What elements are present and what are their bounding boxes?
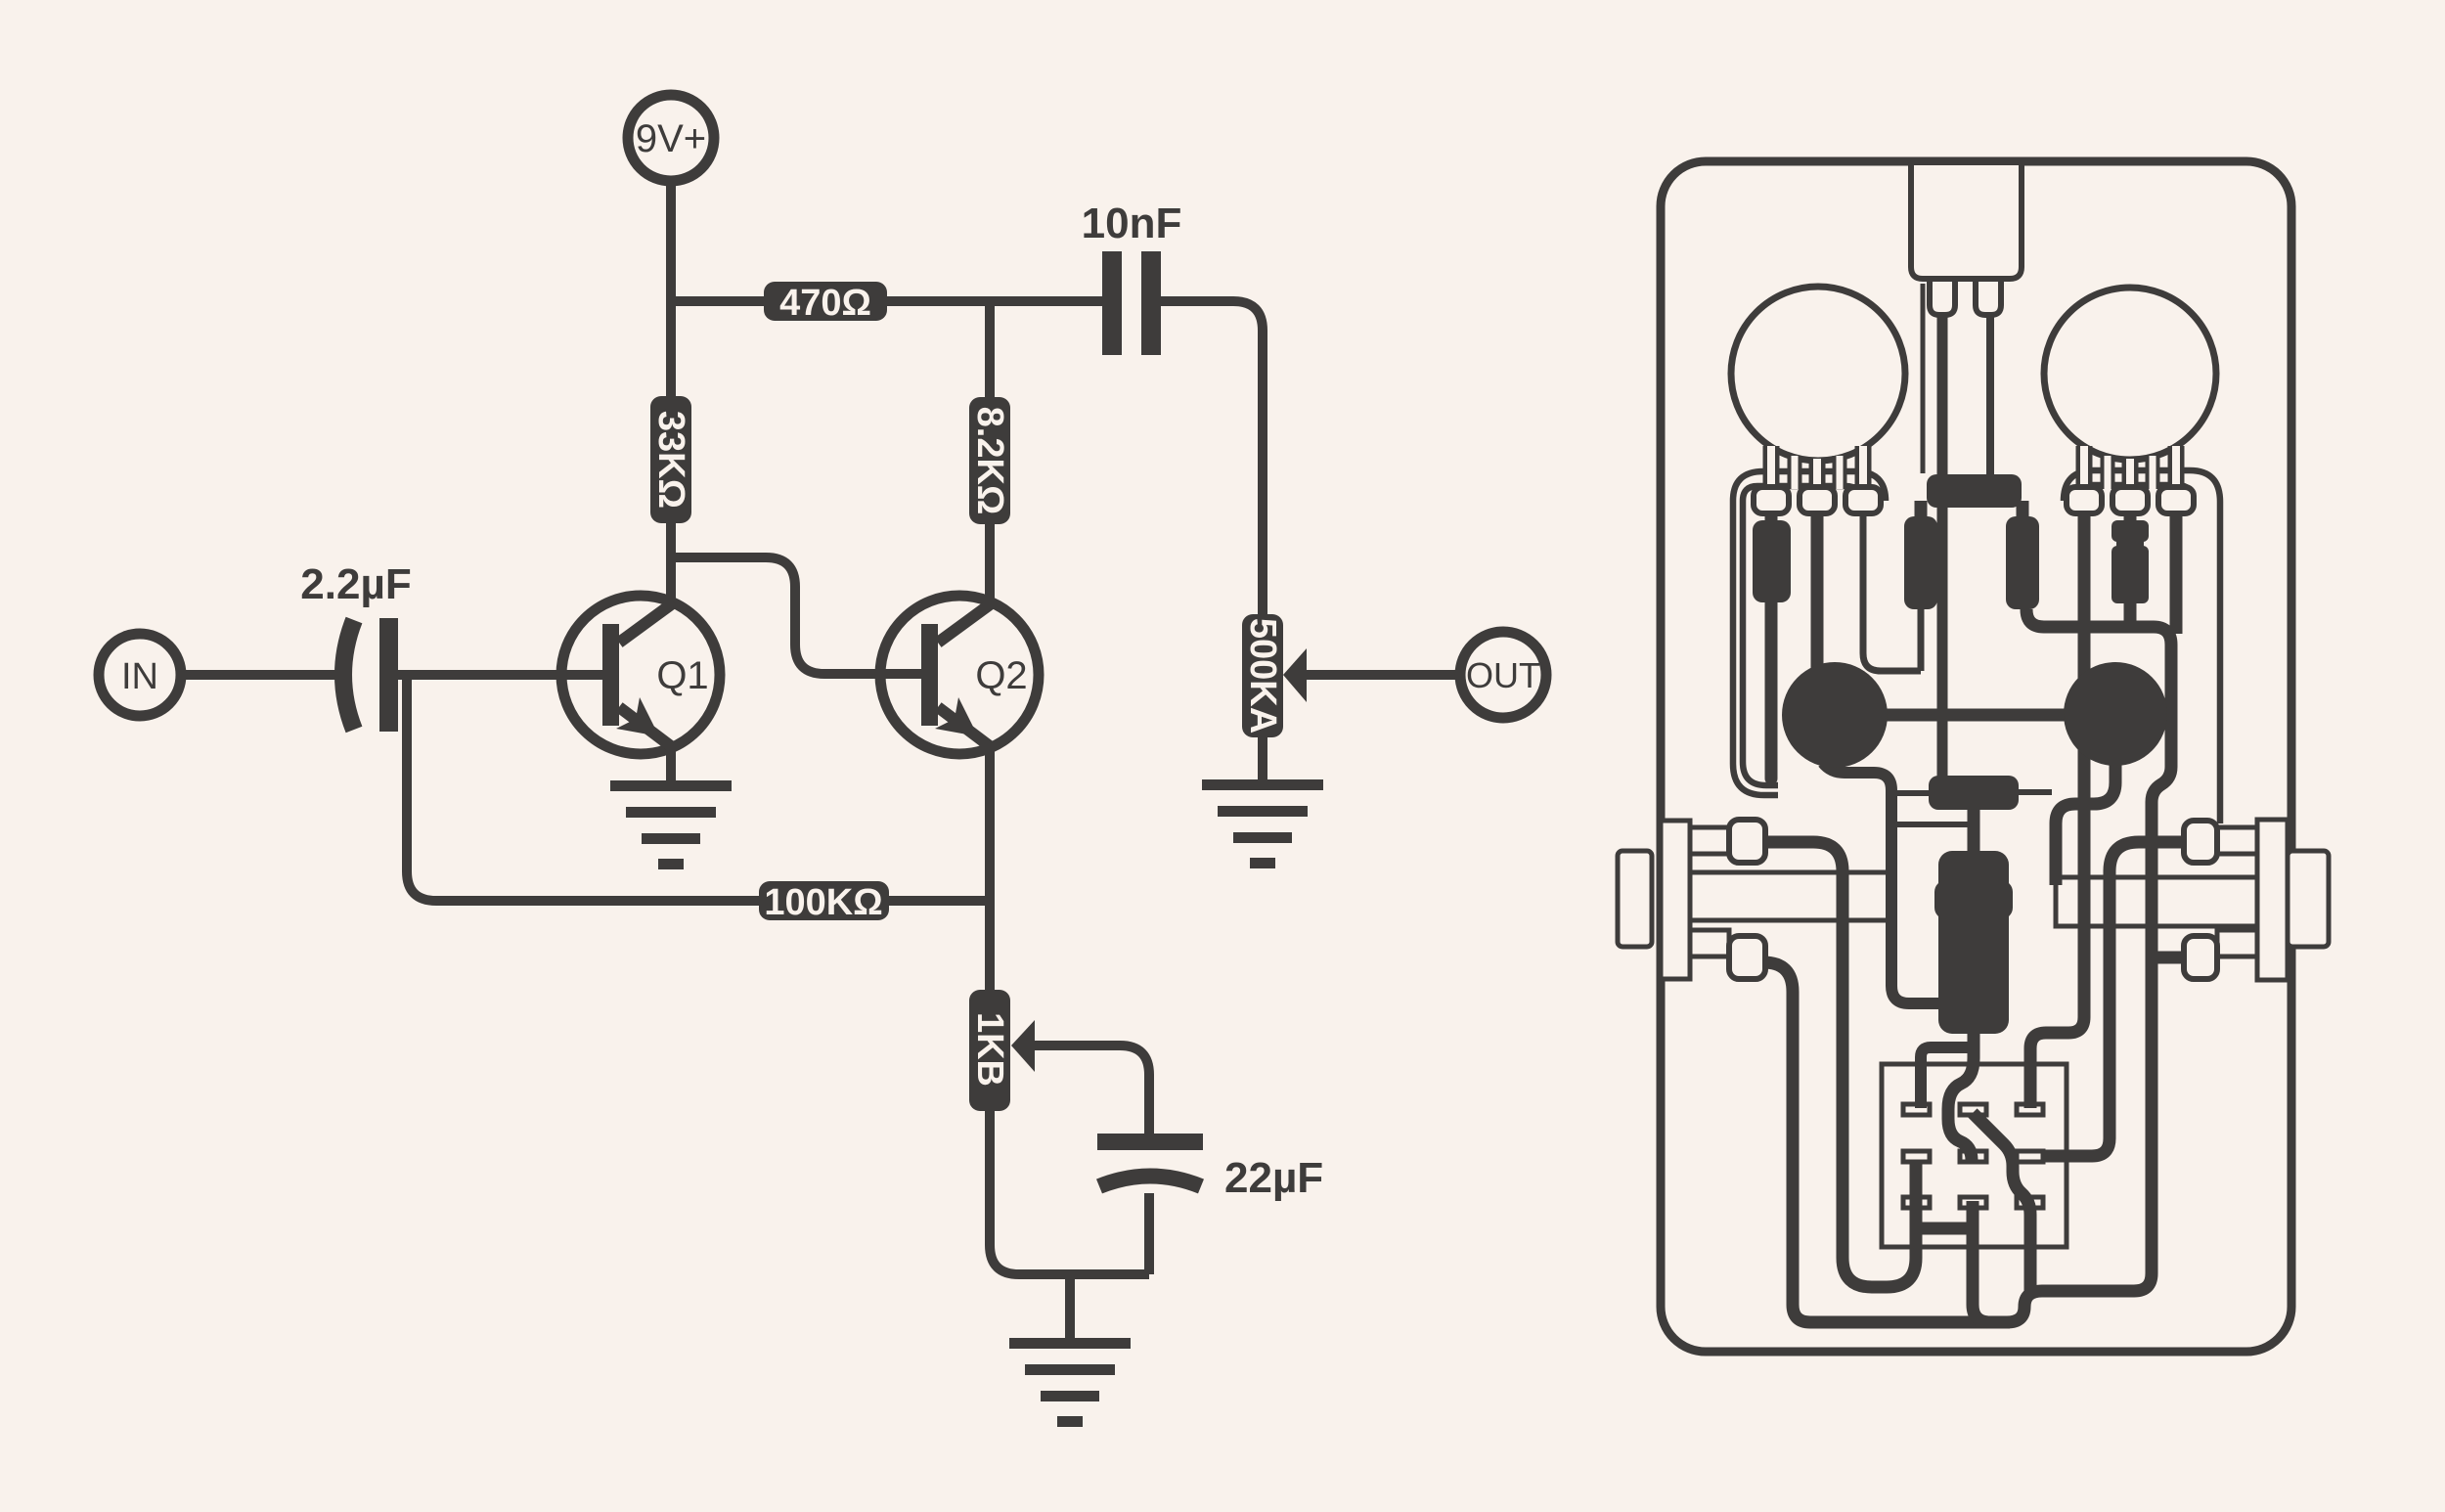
terminal IN (99, 634, 181, 716)
resistor mid horizontal layout (1929, 776, 2019, 810)
wire jack tip left to pad ML (1765, 842, 1916, 1287)
wire DC jack thin lead (1921, 284, 1926, 473)
capacitor 2.2uF polarized (300, 560, 411, 732)
resistor 33K (650, 396, 691, 523)
transistor Q2 (880, 596, 1039, 754)
ground under 500KA (1202, 779, 1323, 868)
wire junction down to 8.2K (985, 301, 995, 397)
potentiometer 500KA (1242, 614, 1307, 737)
resistor R3 layout (2006, 516, 2039, 609)
left jack prong bottom (1690, 930, 1729, 956)
DC jack tab 1 (1930, 279, 1955, 315)
resistor 8.2K (969, 397, 1010, 524)
resistor top horizontal layout (1927, 474, 2022, 508)
wire pot R lug2 stem (2124, 512, 2137, 524)
white wire pot L comb stems (1795, 456, 1840, 489)
wire big cap top stem (1968, 810, 1980, 853)
wire DC tab1 down to mid resistor (1937, 315, 1948, 778)
svg-text:10nF: 10nF (1082, 200, 1182, 247)
wire Q1 collector to Q2 base (671, 557, 921, 674)
pot L lug 1 (1754, 487, 1789, 513)
pot L lug 3 (1845, 487, 1881, 513)
wire big cap to pad MC (1948, 1032, 1974, 1160)
transistor Q1 (561, 596, 720, 754)
resistor 100K (759, 881, 889, 923)
wire 500KA to ground (1258, 737, 1267, 781)
transistor T2 layout (2064, 662, 2167, 766)
svg-text:Q1: Q1 (656, 654, 708, 697)
footswitch pad BL (1903, 1197, 1930, 1208)
electrolytic cap small with stripe (2112, 520, 2149, 603)
wire Q1 emitter to ground (666, 741, 676, 782)
left jack nut (1618, 851, 1652, 947)
footswitch pad BC (1960, 1197, 1986, 1208)
svg-text:22µF: 22µF (1224, 1154, 1323, 1202)
wire pad MR to right jack tip (2043, 842, 2184, 1156)
left jack tab top (1729, 820, 1765, 863)
wire R2 top stem (1915, 501, 1928, 516)
wire 8.2K to Q2 collector (985, 524, 995, 604)
white wire pot R bus outer (2064, 470, 2220, 823)
wire pot R lug3 down (2170, 512, 2183, 634)
right jack sleeve bar (2056, 877, 2257, 926)
right jack body (2257, 820, 2288, 980)
pot L lug 2 (1800, 487, 1835, 513)
footswitch pad ML (1903, 1151, 1930, 1162)
resistor 470R (764, 282, 887, 324)
wire 2.2uF to Q1 base (398, 670, 602, 680)
left jack body (1661, 821, 1690, 979)
left jack sleeve bar (1690, 872, 1893, 920)
wire pot L lug1 through R1 to T1 (1765, 512, 1778, 524)
white wire pot R comb stems (2108, 456, 2153, 489)
wire mid resistor right lead (2019, 789, 2052, 795)
footswitch body (1882, 1064, 2067, 1247)
DC jack body (1911, 162, 2022, 279)
wire pot R lug1 to pad TR (2030, 512, 2084, 1108)
svg-text:1KB: 1KB (969, 1012, 1010, 1087)
terminal OUT (1460, 632, 1546, 718)
wire DC tab2 down to top resistor (1986, 315, 1994, 476)
DC jack tab 2 (1976, 279, 2001, 315)
wire Q2 emitter down to 1KB pot (985, 741, 995, 990)
enclosure outline (1661, 161, 2291, 1352)
svg-text:2.2µF: 2.2µF (300, 560, 411, 608)
right jack prong top (2217, 827, 2257, 854)
resistor R2 layout (1904, 516, 1937, 609)
svg-text:100KΩ: 100KΩ (764, 882, 882, 923)
power symbol 9V+ (628, 95, 714, 181)
potentiometer body left (1731, 287, 1905, 461)
svg-text:Q2: Q2 (975, 654, 1027, 697)
svg-text:33KΩ: 33KΩ (650, 411, 691, 509)
footswitch pad TC (1960, 1104, 1986, 1115)
white wire pot L stems (1771, 446, 1863, 494)
white wire pot L bus inner (1743, 486, 1860, 785)
ground under Q1 (610, 780, 732, 869)
wire stripe cap bottom stem (2124, 600, 2137, 627)
svg-text:470Ω: 470Ω (779, 283, 871, 324)
pot R lug 1 (2067, 487, 2102, 513)
left jack tab bottom (1729, 936, 1765, 979)
wire switch S through pads (1973, 1113, 2030, 1293)
wire T2 bottom to sleeve (2056, 763, 2115, 885)
wire 33K to Q1 collector (666, 523, 676, 604)
pot R lug 2 (2112, 487, 2148, 513)
wire right jack sleeve stub (2152, 952, 2184, 964)
capacitor 22uF polarized (1097, 1134, 1323, 1202)
footswitch pad TL (1903, 1104, 1930, 1115)
pot R lug 3 (2158, 487, 2194, 513)
svg-text:9V+: 9V+ (636, 117, 706, 160)
ground bottom (1009, 1338, 1131, 1427)
wire branch to pad TL (1921, 1047, 1970, 1108)
right jack nut (2288, 851, 2329, 947)
footswitch pad MC (1960, 1151, 1986, 1162)
wire rail junction to 470 resistor (671, 296, 764, 306)
svg-text:500KA: 500KA (1242, 618, 1283, 734)
footswitch pad BR (2017, 1197, 2043, 1208)
right jack tab top (2184, 821, 2217, 863)
wire pot L lug3 to R2 bottom (1863, 512, 1921, 671)
left jack prong top (1690, 827, 1729, 854)
wire pad BC drop (1973, 1201, 2010, 1322)
wire T1 to T2 (1878, 709, 2068, 722)
transistor T1 layout (1782, 662, 1888, 768)
wire 500KA wiper to OUT (1305, 670, 1460, 680)
wire R1 bottom to T1 (1765, 599, 1778, 778)
svg-text:IN: IN (121, 656, 158, 697)
wire 9V+ to rail junction (666, 181, 676, 301)
white wire pot L bus outer (1733, 471, 1886, 795)
wire thin lead to mid resistor (1891, 790, 1931, 796)
white wire pot R stems (2084, 446, 2176, 494)
footswitch pad MR (2017, 1151, 2043, 1162)
wire thin lead to cap node (1891, 822, 1968, 827)
right jack tab bottom (2184, 936, 2217, 979)
capacitor 10nF (1082, 200, 1182, 355)
wire ground stem (1065, 1274, 1075, 1339)
wire R3 top stem (2017, 501, 2029, 516)
resistor R1 layout (1753, 520, 1791, 602)
wire input node down to 100K (407, 675, 759, 901)
wire junction down to 33K (666, 301, 676, 396)
electrolytic cap big (1934, 851, 2013, 1034)
wire 470 to 10nF (887, 296, 1102, 306)
footswitch pad TR (2017, 1104, 2043, 1115)
wire 22uF bottom to ground rail (1144, 1193, 1154, 1274)
svg-text:8.2KΩ: 8.2KΩ (969, 407, 1010, 515)
wire pot L lug2 to T1 top (1811, 512, 1824, 669)
wire 100K to Q2 emitter node (889, 896, 990, 906)
wire 1KB bottom to ground rail (990, 1111, 1149, 1274)
wire IN to 2.2uF (181, 670, 342, 680)
white wire pot R bus inner (2073, 485, 2193, 501)
wire 1KB wiper to 22uF top (1033, 1045, 1149, 1134)
wire jack sleeve left to footswitch loop (1763, 609, 2171, 1322)
wire 10nF to 500KA pot (1161, 301, 1263, 614)
potentiometer body right (2044, 288, 2216, 460)
potentiometer 1KB (969, 990, 1035, 1111)
right jack prong bottom (2217, 930, 2257, 956)
svg-text:OUT: OUT (1466, 655, 1540, 695)
wire T1 bottom run (1823, 763, 1960, 1003)
wire H-bar (1916, 1223, 1973, 1235)
